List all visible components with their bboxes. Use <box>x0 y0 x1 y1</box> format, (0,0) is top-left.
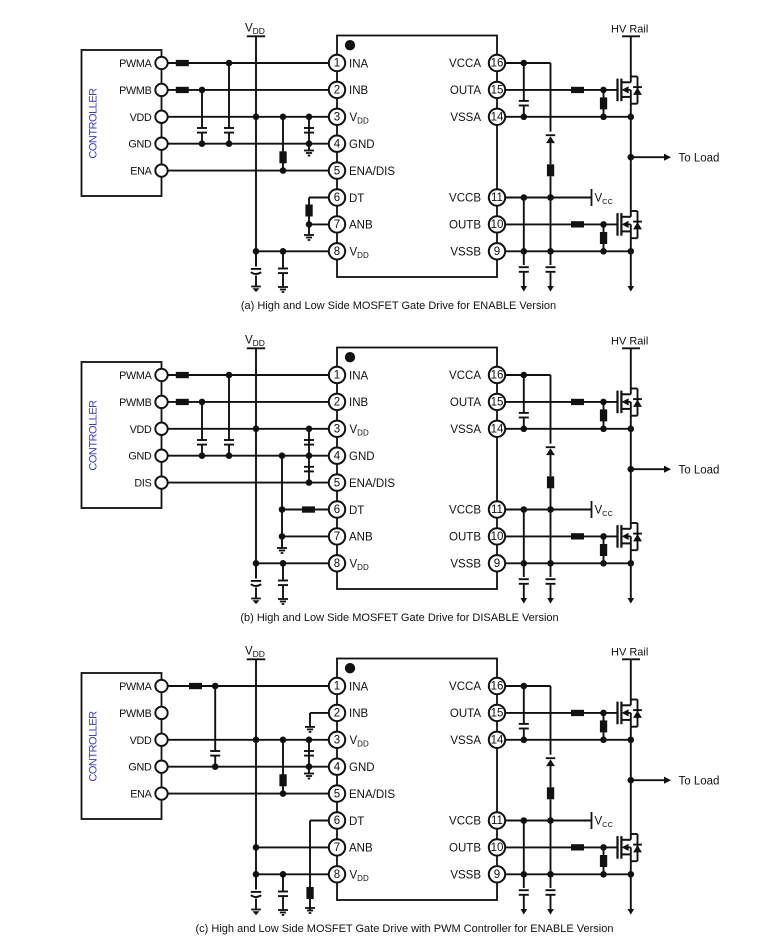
svg-text:HV Rail: HV Rail <box>611 647 648 659</box>
pin 11 (b) <box>489 501 505 517</box>
resistor R8c gate B <box>571 844 584 850</box>
svg-text:VCCB: VCCB <box>449 505 481 517</box>
capacitor C8a VCCB bypass <box>546 266 556 268</box>
svg-text:15: 15 <box>491 708 504 720</box>
svg-text:3: 3 <box>334 424 340 436</box>
svg-text:16: 16 <box>491 58 504 70</box>
wire switch node (a) <box>630 104 632 211</box>
svg-text:VSSB: VSSB <box>450 559 481 571</box>
svg-text:INB: INB <box>349 85 369 97</box>
resistor R6c gate A <box>571 710 584 716</box>
wire low-side source (c) <box>630 861 632 910</box>
node VCC supply (c) <box>591 812 593 829</box>
capacitor C7b VCCB bypass <box>519 578 529 580</box>
svg-text:ENA: ENA <box>130 166 152 178</box>
svg-text:5: 5 <box>334 477 340 489</box>
ground power return (c) <box>628 909 635 915</box>
resistor R8b gate B <box>571 533 584 539</box>
svg-text:3: 3 <box>334 735 340 747</box>
pin 2 (c) <box>329 705 345 721</box>
ground VDD bypass 2 (c) <box>278 909 288 911</box>
ground power return (b) <box>628 598 635 604</box>
wire VDD rail vertical (b) <box>255 348 257 578</box>
svg-text:2: 2 <box>334 397 340 409</box>
pin 1 indicator dot (b) <box>345 352 355 362</box>
pin 1 indicator dot (c) <box>345 663 355 673</box>
pin 16 (a) <box>489 55 505 71</box>
svg-text:(a) High and Low Side MOSFET G: (a) High and Low Side MOSFET Gate Drive … <box>241 300 556 312</box>
capacitor C1a PWMB filter <box>201 90 203 128</box>
ground VCCB bypass 1 (b) <box>521 598 528 604</box>
ground VDD bypass 1 (b) <box>251 598 261 600</box>
capacitor C7c VCCB bypass <box>519 889 529 891</box>
wire VCCB bypass branch 2 (c) <box>550 821 552 889</box>
svg-text:CONTROLLER: CONTROLLER <box>88 88 100 159</box>
pin 8 (a) <box>329 243 345 259</box>
svg-text:7: 7 <box>334 531 340 543</box>
ground ANB (a) <box>308 224 310 235</box>
pin 3 (b) <box>329 421 345 437</box>
wire VCCB bypass branch 2 (b) <box>550 510 552 578</box>
svg-text:INB: INB <box>349 708 369 720</box>
resistor R3c VDD to ENA pull-up <box>282 740 284 794</box>
wire VCCA row (b) <box>505 374 551 376</box>
wire PWMB to INB (b) <box>168 401 329 403</box>
pin 9 (c) <box>489 866 505 882</box>
capacitor C1b PWMB filter <box>201 402 203 440</box>
svg-text:1: 1 <box>334 58 340 70</box>
wire VCCB row (b) <box>505 509 592 511</box>
svg-text:VCCA: VCCA <box>449 370 481 382</box>
svg-text:VSSA: VSSA <box>450 735 481 747</box>
pin 6 (c) <box>329 812 345 828</box>
resistor R5a bootstrap <box>547 164 554 176</box>
svg-text:5: 5 <box>334 165 340 177</box>
resistor R1b PWMA series <box>176 372 189 378</box>
node switch output To Load (a) <box>628 154 635 161</box>
svg-text:8: 8 <box>334 558 340 570</box>
resistor R2b PWMB series <box>176 399 189 405</box>
diode D1a bootstrap <box>546 134 555 136</box>
svg-text:VSSB: VSSB <box>450 247 481 259</box>
ground VCCB bypass 2 (a) <box>547 286 554 292</box>
wire OUTB row (c) <box>505 846 618 848</box>
svg-text:GND: GND <box>349 139 375 151</box>
pin 7 (b) <box>329 528 345 544</box>
transistor Q1c high-side (N-channel MOSFET) <box>618 700 642 727</box>
svg-text:VCCA: VCCA <box>449 681 481 693</box>
svg-text:INA: INA <box>349 58 369 70</box>
svg-text:4: 4 <box>334 761 341 773</box>
wire junction PWMA filter (a) <box>226 60 233 67</box>
svg-text:9: 9 <box>494 246 500 258</box>
ground VCCB bypass 1 (a) <box>521 286 528 292</box>
wire OUTA row (c) <box>505 712 618 714</box>
svg-text:OUTB: OUTB <box>449 532 481 544</box>
capacitor C6a bootstrap VCCA-VSSA <box>523 63 525 101</box>
svg-text:GND: GND <box>128 451 152 463</box>
resistor R4c DT pull-down <box>306 887 313 899</box>
ground VDD bypass 1 (c) <box>251 909 261 911</box>
svg-text:OUTA: OUTA <box>450 85 481 97</box>
wire VDD pin8 row (a) <box>256 250 329 252</box>
svg-text:GND: GND <box>349 451 375 463</box>
pin 9 (b) <box>489 555 505 571</box>
capacitor C6b bootstrap VCCA-VSSA <box>523 375 525 413</box>
wire ENA/DIS row (b) <box>168 482 329 484</box>
wire VSSB row (a) <box>505 250 631 252</box>
svg-text:VDD: VDD <box>350 735 369 748</box>
svg-text:VSSA: VSSA <box>450 112 481 124</box>
transistor Q2a low-side (N-channel MOSFET) <box>618 211 642 238</box>
svg-text:8: 8 <box>334 246 340 258</box>
svg-text:3: 3 <box>334 112 340 124</box>
wire VCCB bypass branch 1 (a) <box>523 198 525 266</box>
svg-text:PWMA: PWMA <box>119 370 152 382</box>
wire bootstrap branch (b) <box>550 375 552 444</box>
ground DT (c) <box>305 907 315 909</box>
pin 1 (a) <box>329 55 345 71</box>
svg-text:VDD: VDD <box>130 735 152 747</box>
pin 1 (b) <box>329 367 345 383</box>
wire VCCB row (c) <box>505 820 592 822</box>
diode D1c bootstrap <box>546 757 555 759</box>
svg-text:VDD: VDD <box>350 112 369 125</box>
capacitor C4b VDD bulk bypass <box>255 563 257 578</box>
svg-text:VCCA: VCCA <box>449 58 481 70</box>
wire bootstrap branch (c) <box>550 686 552 755</box>
wire OUTA row (a) <box>505 89 618 91</box>
pin 5 (b) <box>329 474 345 490</box>
wire GND row (b) <box>168 455 329 457</box>
wire junction PWMA filter (b) <box>226 372 233 379</box>
node switch output To Load (b) <box>628 466 635 473</box>
resistor R9a gate B pull-down <box>603 224 605 251</box>
wire VSSB row (c) <box>505 873 631 875</box>
svg-text:DIS: DIS <box>134 478 151 490</box>
wire VCCA row (c) <box>505 685 551 687</box>
capacitor C5a VDD bypass <box>282 251 284 268</box>
controller box (a) <box>82 50 162 196</box>
wire DT row (b) <box>282 509 329 511</box>
node switch output To Load (c) <box>628 777 635 784</box>
wire PWMA to INA (c) <box>168 685 329 687</box>
wire VSSA row (c) <box>505 739 631 741</box>
svg-text:PWMA: PWMA <box>119 58 152 70</box>
capacitor C2c PWMA filter <box>214 686 216 751</box>
svg-text:5: 5 <box>334 788 340 800</box>
svg-text:VDD: VDD <box>245 23 265 36</box>
svg-text:8: 8 <box>334 869 340 881</box>
svg-text:VCC: VCC <box>595 816 614 829</box>
svg-text:ANB: ANB <box>349 532 373 544</box>
pin 15 (b) <box>489 394 505 410</box>
pin 5 (c) <box>329 785 345 801</box>
wire ENA/DIS row (a) <box>168 170 329 172</box>
pin 4 (a) <box>329 136 345 152</box>
op-amp U1a gate driver IC body <box>337 36 497 278</box>
capacitor C2b PWMA filter <box>228 375 230 440</box>
resistor R1a PWMA series <box>176 60 189 66</box>
svg-text:To Load: To Load <box>679 776 720 788</box>
pin 15 (c) <box>489 705 505 721</box>
wire bootstrap branch (a) <box>550 63 552 132</box>
resistor R8a gate B <box>571 221 584 227</box>
ground VDD bypass 1 (a) <box>251 286 261 288</box>
wire VCCB bypass branch 1 (c) <box>523 821 525 889</box>
svg-text:To Load: To Load <box>679 465 720 477</box>
wire VCCB bypass branch 1 (b) <box>523 510 525 578</box>
svg-text:14: 14 <box>491 735 504 747</box>
wire DT branch (c) <box>310 820 329 822</box>
svg-text:10: 10 <box>491 842 504 854</box>
pin 14 (a) <box>489 109 505 125</box>
svg-text:DT: DT <box>349 193 364 205</box>
svg-text:11: 11 <box>491 192 503 204</box>
svg-text:14: 14 <box>491 424 504 436</box>
svg-text:1: 1 <box>334 681 340 693</box>
resistor R1c PWMA series <box>189 683 202 689</box>
ground power return (a) <box>628 286 635 292</box>
wire switch node (c) <box>630 727 632 834</box>
capacitor C2a PWMA filter <box>228 63 230 128</box>
wire VDD rail vertical (c) <box>255 659 257 889</box>
wire VSSB row (b) <box>505 562 631 564</box>
pin 10 (a) <box>489 216 505 232</box>
ground VCCB bypass 2 (b) <box>547 598 554 604</box>
capacitor C6c bootstrap VCCA-VSSA <box>523 686 525 724</box>
svg-text:ENA/DIS: ENA/DIS <box>349 478 395 490</box>
capacitor C3a VDD to GND <box>308 117 310 144</box>
controller box (c) <box>82 673 162 819</box>
resistor R3a VDD to ENA pull-up <box>282 117 284 171</box>
transistor Q1a high-side (N-channel MOSFET) <box>618 77 642 104</box>
wire junction PWMB filter (a) <box>199 87 206 94</box>
wire GND row (c) <box>168 766 329 768</box>
wire VSSA row (b) <box>505 428 631 430</box>
svg-text:(c) High and Low Side MOSFET G: (c) High and Low Side MOSFET Gate Drive … <box>196 923 614 935</box>
wire low-side source (a) <box>630 238 632 287</box>
svg-text:VDD: VDD <box>130 112 152 124</box>
svg-text:10: 10 <box>491 531 504 543</box>
svg-text:INA: INA <box>349 681 369 693</box>
wire VDD row (b) <box>168 428 329 430</box>
svg-text:OUTA: OUTA <box>450 708 481 720</box>
wire junction PWMA filter (c) <box>212 683 219 690</box>
wire PWMB to INB (a) <box>168 89 329 91</box>
svg-text:ANB: ANB <box>349 843 373 855</box>
svg-text:2: 2 <box>334 708 340 720</box>
pin 15 (a) <box>489 82 505 98</box>
svg-text:INA: INA <box>349 370 369 382</box>
ground VDD bypass 2 (b) <box>278 598 288 600</box>
svg-text:VDD: VDD <box>350 559 369 572</box>
capacitor C9b GND to DIS <box>308 456 310 483</box>
wire GND to DT/ANB branch (b) <box>281 456 283 548</box>
diode D1b bootstrap <box>546 446 555 448</box>
ground VDD bypass 2 (a) <box>278 286 288 288</box>
svg-text:VDD: VDD <box>350 870 369 883</box>
pin 16 (c) <box>489 678 505 694</box>
svg-text:15: 15 <box>491 397 504 409</box>
svg-text:VDD: VDD <box>130 424 152 436</box>
wire VCCB row (a) <box>505 197 592 199</box>
resistor R7b gate A pull-down <box>603 402 605 429</box>
svg-text:ANB: ANB <box>349 220 373 232</box>
resistor R4a DT to ANB <box>305 205 312 217</box>
pin 7 (c) <box>329 839 345 855</box>
pin 10 (c) <box>489 839 505 855</box>
svg-text:VDD: VDD <box>350 424 369 437</box>
pin 4 (c) <box>329 759 345 775</box>
svg-text:OUTA: OUTA <box>450 397 481 409</box>
capacitor C8c VCCB bypass <box>546 889 556 891</box>
svg-text:GND: GND <box>349 762 375 774</box>
wire ENA/DIS row (c) <box>168 793 329 795</box>
pin 3 (a) <box>329 109 345 125</box>
svg-text:DT: DT <box>349 816 364 828</box>
svg-text:10: 10 <box>491 219 504 231</box>
svg-text:15: 15 <box>491 85 504 97</box>
ground VCCB bypass 2 (c) <box>547 909 554 915</box>
wire ANB stub (a) <box>309 223 329 225</box>
wire low-side source (b) <box>630 550 632 599</box>
wire HV rail upper (c) <box>630 659 632 699</box>
svg-text:7: 7 <box>334 219 340 231</box>
op-amp U1c gate driver IC body <box>337 659 497 901</box>
wire junction PWMB filter (b) <box>199 399 206 406</box>
wire VDD row (c) <box>168 739 329 741</box>
svg-text:HV Rail: HV Rail <box>611 24 648 36</box>
svg-text:VDD: VDD <box>245 335 265 348</box>
capacitor C5b VDD bypass <box>282 563 284 580</box>
node VCC supply (a) <box>591 189 593 206</box>
capacitor C3c VDD to GND <box>308 740 310 767</box>
pin 2 (a) <box>329 82 345 98</box>
svg-text:VCC: VCC <box>595 193 614 206</box>
svg-text:7: 7 <box>334 842 340 854</box>
resistor R7a gate A pull-down <box>603 90 605 117</box>
svg-text:6: 6 <box>334 815 340 827</box>
wire PWMA to INA (a) <box>168 62 329 64</box>
transistor Q2b low-side (N-channel MOSFET) <box>618 523 642 550</box>
ground GND net (c) <box>308 767 310 774</box>
svg-text:OUTB: OUTB <box>449 220 481 232</box>
pin 7 (a) <box>329 216 345 232</box>
svg-text:DT: DT <box>349 505 364 517</box>
svg-text:PWMB: PWMB <box>119 397 151 409</box>
capacitor C8b VCCB bypass <box>546 578 556 580</box>
svg-text:PWMB: PWMB <box>119 708 151 720</box>
svg-text:16: 16 <box>491 681 504 693</box>
wire GND row (a) <box>168 143 329 145</box>
svg-text:PWMB: PWMB <box>119 85 151 97</box>
resistor R7c gate A pull-down <box>603 713 605 740</box>
resistor R9c gate B pull-down <box>603 847 605 874</box>
wire ANB to VDD rail (c) <box>256 846 329 848</box>
pin 8 (b) <box>329 555 345 571</box>
resistor R5c bootstrap <box>547 787 554 799</box>
wire OUTA row (b) <box>505 401 618 403</box>
svg-text:GND: GND <box>128 139 152 151</box>
wire DT loop (a) <box>309 197 329 199</box>
pin 16 (b) <box>489 367 505 383</box>
resistor R4b DT series <box>302 506 315 512</box>
svg-text:ENA: ENA <box>130 789 152 801</box>
svg-text:9: 9 <box>494 558 500 570</box>
pin 6 (a) <box>329 189 345 205</box>
capacitor C4a VDD bulk bypass <box>255 251 257 266</box>
wire INB ground stub (c) <box>310 712 329 714</box>
pin 10 (b) <box>489 528 505 544</box>
svg-text:VCCB: VCCB <box>449 193 481 205</box>
svg-text:4: 4 <box>334 138 341 150</box>
transistor Q1b high-side (N-channel MOSFET) <box>618 389 642 416</box>
wire HV rail upper (a) <box>630 36 632 76</box>
svg-text:VCCB: VCCB <box>449 816 481 828</box>
wire OUTB row (b) <box>505 535 618 537</box>
pin 6 (b) <box>329 501 345 517</box>
svg-text:CONTROLLER: CONTROLLER <box>88 400 100 471</box>
wire VDD row (a) <box>168 116 329 118</box>
capacitor C4c VDD bulk bypass <box>255 874 257 889</box>
svg-text:INB: INB <box>349 397 369 409</box>
pin 1 (c) <box>329 678 345 694</box>
pin 8 (c) <box>329 866 345 882</box>
ground DT/ANB branch (b) <box>277 547 287 549</box>
svg-text:VCC: VCC <box>595 505 614 518</box>
svg-text:11: 11 <box>491 504 503 516</box>
op-amp U1b gate driver IC body <box>337 348 497 590</box>
resistor R6a gate A <box>571 87 584 93</box>
ground GND net (a) <box>308 144 310 151</box>
svg-text:14: 14 <box>491 112 504 124</box>
pin 14 (c) <box>489 732 505 748</box>
controller box (b) <box>82 362 162 508</box>
resistor R2a PWMB series <box>176 87 189 93</box>
svg-text:9: 9 <box>494 869 500 881</box>
wire ANB stub (b) <box>282 535 329 537</box>
svg-text:VDD: VDD <box>350 247 369 260</box>
svg-text:ENA/DIS: ENA/DIS <box>349 166 395 178</box>
pin 9 (a) <box>489 243 505 259</box>
svg-text:1: 1 <box>334 370 340 382</box>
svg-text:VDD: VDD <box>245 646 265 659</box>
wire VDD pin8 row (c) <box>256 873 329 875</box>
wire switch node (b) <box>630 416 632 523</box>
wire VDD pin8 row (b) <box>256 562 329 564</box>
svg-text:2: 2 <box>334 85 340 97</box>
wire PWMA to INA (b) <box>168 374 329 376</box>
capacitor C7a VCCB bypass <box>519 266 529 268</box>
wire VCCA row (a) <box>505 62 551 64</box>
pin 1 indicator dot (a) <box>345 40 355 50</box>
wire HV rail upper (b) <box>630 348 632 388</box>
svg-text:(b) High and Low Side MOSFET G: (b) High and Low Side MOSFET Gate Drive … <box>240 612 558 624</box>
ground VCCB bypass 1 (c) <box>521 909 528 915</box>
pin 4 (b) <box>329 448 345 464</box>
wire OUTB row (a) <box>505 223 618 225</box>
svg-text:6: 6 <box>334 192 340 204</box>
svg-text:OUTB: OUTB <box>449 843 481 855</box>
svg-text:GND: GND <box>128 762 152 774</box>
pin 11 (c) <box>489 812 505 828</box>
svg-text:VSSB: VSSB <box>450 870 481 882</box>
ground INB (c) <box>305 726 315 728</box>
pin 3 (c) <box>329 732 345 748</box>
svg-text:4: 4 <box>334 450 341 462</box>
svg-text:HV Rail: HV Rail <box>611 336 648 348</box>
